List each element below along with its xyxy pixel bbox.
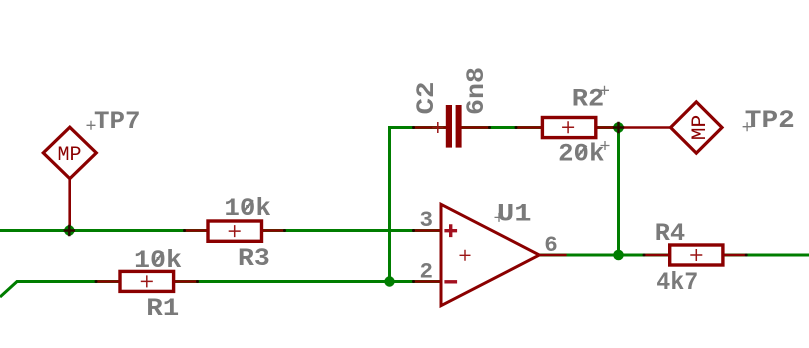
svg-text:R2: R2 xyxy=(572,85,605,114)
svg-text:TP7: TP7 xyxy=(94,107,141,136)
svg-text:3: 3 xyxy=(420,207,434,233)
svg-text:U1: U1 xyxy=(497,200,532,229)
svg-text:10k: 10k xyxy=(224,194,270,223)
svg-text:C2: C2 xyxy=(412,82,441,115)
svg-text:R3: R3 xyxy=(238,244,270,273)
svg-text:R1: R1 xyxy=(146,294,179,323)
svg-text:20k: 20k xyxy=(558,140,604,169)
svg-text:R4: R4 xyxy=(655,219,685,248)
svg-text:2: 2 xyxy=(420,259,434,285)
svg-text:TP2: TP2 xyxy=(745,106,795,135)
svg-text:4k7: 4k7 xyxy=(656,268,698,297)
svg-text:MP: MP xyxy=(57,144,81,167)
svg-text:10k: 10k xyxy=(134,246,182,275)
svg-text:MP: MP xyxy=(689,115,712,141)
svg-text:6: 6 xyxy=(544,232,558,258)
svg-text:6n8: 6n8 xyxy=(462,67,491,115)
